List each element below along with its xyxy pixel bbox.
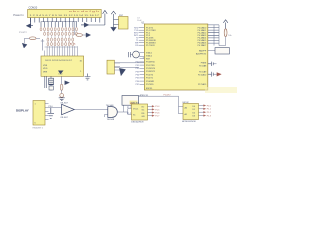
J2 pins right <box>45 104 50 120</box>
net label on long wire <box>164 95 172 97</box>
IC U5 DS1302 body <box>132 104 148 120</box>
svg-text:24C02: 24C02 <box>182 102 189 104</box>
value label 10k right <box>228 35 231 37</box>
VCC arrow left of reset box <box>111 11 118 27</box>
MCU U1 body <box>144 24 207 90</box>
svg-text:VEE: VEE <box>43 72 48 74</box>
U1 left net labels P1 group <box>134 28 139 48</box>
U1 right pins P0 ladder <box>208 25 219 46</box>
LED / cap circle <box>60 94 64 98</box>
svg-text:DISPLAY: DISPLAY <box>16 108 29 112</box>
label under J2 <box>33 127 44 130</box>
crystal Y1 circle + caps <box>129 51 145 58</box>
label above U5 <box>131 102 140 104</box>
pullup RP vertical box left of U1 <box>107 60 120 74</box>
svg-text:P33: P33 <box>136 71 140 73</box>
svg-text:P1.2: P1.2 <box>207 112 212 114</box>
U5 right port arrows (red) <box>152 105 154 116</box>
label under U1 <box>140 94 149 97</box>
svg-text:P2.0/A8: P2.0/A8 <box>199 65 207 68</box>
svg-text:P36: P36 <box>136 81 140 83</box>
label 74LS07 above buffer <box>60 103 68 105</box>
buffer U3A triangle <box>62 104 75 114</box>
svg-text:P31: P31 <box>136 65 140 67</box>
svg-text:P1.0/T2: P1.0/T2 <box>164 95 172 97</box>
svg-text:XTAL2: XTAL2 <box>146 54 153 57</box>
svg-text:P3.5/T1: P3.5/T1 <box>146 78 154 80</box>
label DISPLAY (bold) <box>16 108 29 112</box>
U5 right pins <box>148 106 153 115</box>
label Power In <box>13 13 24 17</box>
resistor R horizontal + arrow (x27-39) <box>25 37 41 43</box>
svg-text:P1.0/T2: P1.0/T2 <box>19 32 27 34</box>
bell box (white rect) <box>122 96 139 106</box>
wires RP to U1 <box>114 63 144 68</box>
resistor bank RB1 row A <box>40 27 77 31</box>
LCD logo mark <box>58 71 64 76</box>
U1 left pins P3 group <box>140 59 145 85</box>
svg-text:CON20: CON20 <box>29 6 38 10</box>
label above U1 <box>142 22 146 24</box>
svg-text:HEADER 6: HEADER 6 <box>33 127 44 130</box>
U6 right pins <box>199 106 204 116</box>
LCD module U2 body <box>41 56 84 76</box>
svg-text:74LS08: 74LS08 <box>106 105 114 107</box>
svg-text:AT89C51: AT89C51 <box>140 94 149 97</box>
label under AND gate <box>107 119 115 121</box>
svg-text:P0.7/AD7: P0.7/AD7 <box>198 44 207 47</box>
J1 pins (17 below body) <box>31 18 100 23</box>
IC U6 body <box>183 104 199 120</box>
svg-text:P3.4/T0: P3.4/T0 <box>146 74 154 76</box>
svg-text:P3.0/RXD: P3.0/RXD <box>146 62 155 64</box>
EA wire + box right of U1 <box>208 48 230 54</box>
wire reroute comb under J1 <box>41 22 77 28</box>
svg-text:DS1302/SO8: DS1302/SO8 <box>131 122 144 124</box>
U1 bottom-left inside label <box>146 88 153 90</box>
ground arrow under reset box <box>111 27 117 31</box>
contrast trimmer stack under LCD <box>45 76 54 90</box>
svg-text:P1.7/SCK: P1.7/SCK <box>146 45 155 47</box>
label under U6 <box>182 120 196 123</box>
U1 inside left pin names P3 <box>146 58 156 86</box>
svg-text:RD: RD <box>135 45 138 47</box>
svg-text:P3.2/INT0: P3.2/INT0 <box>146 68 156 70</box>
resistor bank RB1 row B <box>44 32 78 36</box>
label above U6 <box>182 102 189 104</box>
wire J2 to buffer <box>50 107 61 109</box>
svg-text:P3.3/INT1: P3.3/INT1 <box>146 71 156 73</box>
svg-text:P1.5: P1.5 <box>155 109 160 111</box>
wire AND out up to bell box <box>117 105 131 114</box>
U6 right port arrows (red) <box>204 105 206 117</box>
U1 inside XTAL pin names <box>146 51 153 57</box>
svg-text:P34: P34 <box>136 75 140 77</box>
svg-text:D0 D1 D2 D3 D4 D5 D6 D7: D0 D1 D2 D3 D4 D5 D6 D7 <box>45 60 72 62</box>
svg-text:VSS: VSS <box>43 65 48 67</box>
label above AND gate <box>106 105 114 107</box>
VCC arrow right of J1 <box>89 10 108 25</box>
long wire y96 to U6 <box>139 96 184 114</box>
U1 inside right pin names P0 <box>198 27 207 48</box>
net label on buffer input <box>49 106 54 108</box>
svg-text:PSEN: PSEN <box>201 63 207 65</box>
port arrow right (x87) <box>81 23 89 28</box>
svg-text:10k: 10k <box>228 35 231 37</box>
U1 inside right pin names P2 <box>198 63 207 87</box>
svg-text:DS1302: DS1302 <box>131 102 140 104</box>
resistor R2 horizontal + arrow right (x76-93) <box>75 22 91 37</box>
svg-text:LCD: LCD <box>59 74 64 76</box>
svg-text:a b c d e f g h: a b c d e f g h <box>69 11 99 13</box>
wire + resistor under LCD (x61.5) <box>60 76 63 93</box>
label under U5 <box>131 122 144 124</box>
svg-text:89C51: 89C51 <box>146 88 153 90</box>
svg-text:P37: P37 <box>136 84 140 86</box>
U1 inside right pin names EA ALE PSEN <box>196 50 207 56</box>
pullup resistor R1 with VCC (far right) <box>219 20 228 46</box>
svg-text:P3.7/RD: P3.7/RD <box>146 84 154 86</box>
svg-text:P1.0: P1.0 <box>207 105 212 107</box>
svg-text:P1.7: P1.7 <box>155 116 160 118</box>
svg-text:I/O: I/O <box>142 107 145 109</box>
pale yellow smear right of U1 bottom <box>205 87 237 93</box>
U1 left pins P1 group <box>139 28 145 46</box>
AND gate U4A <box>105 107 118 118</box>
cap label right of reset box <box>137 17 142 21</box>
svg-text:P1.3: P1.3 <box>207 115 212 117</box>
net label under left arrow <box>19 32 27 34</box>
svg-text:P2.7/A15: P2.7/A15 <box>198 83 207 86</box>
arrow right near resistor top <box>65 81 70 85</box>
ALE cluster right of U1 <box>208 62 217 66</box>
ground under circle <box>59 98 65 101</box>
ground arrow on wire <box>119 68 125 76</box>
svg-text:P32: P32 <box>136 68 140 70</box>
reset circuit box (top middle) <box>119 15 129 29</box>
svg-text:VDD: VDD <box>43 68 48 70</box>
svg-text:EA/VPP: EA/VPP <box>199 50 207 53</box>
svg-text:ALE/PROG: ALE/PROG <box>196 53 207 56</box>
arrow down-left under R <box>22 43 27 48</box>
U5 right net labels <box>155 106 160 117</box>
svg-text:Power In: Power In <box>13 13 24 17</box>
RB leads vertical <box>45 31 77 42</box>
resistor bank RB2 row A <box>47 38 74 42</box>
ground right of J2 <box>48 108 55 119</box>
connector J1 CON20 body <box>28 6 102 18</box>
connector J2 DISPLAY body <box>33 101 45 126</box>
label under buffer <box>60 117 68 119</box>
svg-text:74LS07: 74LS07 <box>60 117 68 119</box>
svg-text:P3.6/WR: P3.6/WR <box>146 81 155 83</box>
resistor bank RB2 row B <box>47 42 74 46</box>
value label 10k (red) <box>70 43 77 45</box>
svg-text:P35: P35 <box>136 78 140 80</box>
svg-text:P3.1/TXD: P3.1/TXD <box>146 65 155 67</box>
svg-text:74LS08: 74LS08 <box>107 119 115 121</box>
svg-text:1 2 3 4 5 6 7 8 9 10 11 12 13: 1 2 3 4 5 6 7 8 9 10 11 12 13 14 15 16 1… <box>30 15 101 17</box>
svg-text:P2.2/A10: P2.2/A10 <box>198 74 207 77</box>
U5 left net labels <box>127 107 132 115</box>
svg-text:AT24C02/SO8: AT24C02/SO8 <box>182 120 196 123</box>
svg-text:P1.4: P1.4 <box>155 106 160 108</box>
svg-text:P1.1: P1.1 <box>207 109 212 111</box>
svg-text:VCC1: VCC1 <box>133 108 139 110</box>
wires RB2 to LCD pins <box>45 46 78 56</box>
ground right of LCD <box>85 74 91 80</box>
svg-text:P2.1/A9: P2.1/A9 <box>199 71 207 74</box>
svg-text:P1.6: P1.6 <box>155 112 160 114</box>
U1 inside left pin names P1 <box>146 28 156 48</box>
PSEN cluster + red arrow right of U1 <box>208 72 222 77</box>
wire buffer to AND gate <box>74 109 108 111</box>
svg-text:XTAL1: XTAL1 <box>146 51 153 54</box>
U6 right net labels <box>207 105 212 117</box>
port arrow left (top-left) <box>26 18 33 28</box>
U1 left net labels P3 group <box>136 57 145 86</box>
T wire left of RB2 <box>41 39 44 51</box>
